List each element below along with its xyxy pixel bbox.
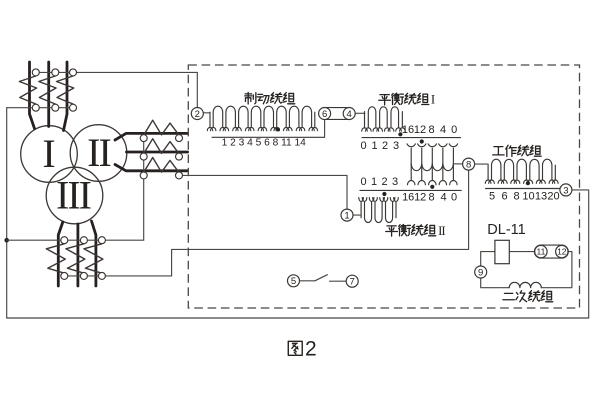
svg-text:6: 6	[322, 109, 327, 120]
coupling winding top cup taps	[407, 144, 458, 147]
power transformer T1 winding I circle	[21, 126, 78, 183]
svg-text:12: 12	[414, 191, 426, 203]
wire: CT-I bottom terminal bus	[7, 107, 73, 109]
wire: DL-11 coil left lead to node 9	[481, 252, 495, 266]
CT secondary winding 1LH-b (zigzag)	[39, 76, 56, 104]
svg-text:12: 12	[414, 124, 426, 136]
svg-text:0: 0	[451, 124, 457, 136]
svg-text:5: 5	[291, 276, 296, 287]
CT secondary winding 1LH-c (zigzag)	[57, 76, 74, 104]
dashed relay enclosure box	[188, 65, 579, 308]
svg-text:8: 8	[466, 160, 471, 171]
svg-text:DL-11: DL-11	[487, 222, 525, 238]
braking winding tap bus overline	[212, 136, 325, 138]
svg-text:12: 12	[557, 247, 567, 257]
middle tap turns numbers 16 12 8 4 0 (top row)	[402, 124, 457, 136]
svg-text:5: 5	[489, 191, 495, 203]
selected tap dot on balance winding I	[398, 132, 402, 136]
DL-11 relay coil rectangle	[495, 240, 509, 263]
wire: CT-III bottom terminal to node 8 branch	[64, 170, 468, 276]
svg-text:II: II	[438, 224, 445, 238]
svg-text:2: 2	[381, 176, 387, 188]
svg-text:10: 10	[522, 191, 534, 203]
CT-II right terminal a	[176, 135, 183, 142]
braking winding coil (zhidong raozu)	[207, 106, 317, 131]
power transformer T1 winding II circle	[70, 125, 127, 182]
CT-II right terminal b	[176, 153, 183, 160]
node 6 terminal	[319, 108, 331, 120]
wire: overline up to node 6	[324, 119, 326, 137]
svg-text:2: 2	[305, 337, 317, 360]
svg-text:16: 16	[402, 124, 414, 136]
wire: CT-II left terminal chain down to CT-III bus	[143, 138, 145, 240]
balance winding II coil (mirrored fork coil)	[359, 198, 399, 223]
svg-text:4: 4	[440, 124, 446, 136]
node 4 terminal	[343, 108, 355, 120]
node 3 terminal	[560, 184, 572, 196]
winding II phase conductor C (thick lead)	[115, 165, 188, 171]
wire: node 9 down to secondary winding	[481, 278, 510, 288]
node 1 terminal	[341, 209, 353, 221]
node 11 terminal	[535, 245, 547, 257]
CT-I top terminal b	[52, 69, 59, 76]
switch blade (open contact)	[315, 275, 328, 281]
winding III phase conductor B (thick lead)	[77, 224, 80, 286]
removable link between node 11 and node 12	[534, 245, 568, 258]
CT-II left terminal a	[140, 135, 147, 142]
wire: CT-I top terminal bus to node 2	[36, 72, 198, 106]
selected tap dot on braking winding	[276, 127, 280, 131]
top tap bus overline (balance winding I)	[362, 137, 461, 139]
wire: CT-II right terminal to node 1	[179, 175, 347, 209]
node 12 terminal	[556, 245, 568, 257]
winding III phase conductor C (thick lead)	[92, 221, 96, 286]
selected dot top of coupling winding	[420, 139, 424, 143]
winding II phase conductor B (thick lead)	[127, 151, 188, 154]
winding III phase conductor A (thick lead)	[58, 222, 63, 286]
winding I phase conductor C (thick lead)	[64, 62, 68, 131]
CT-I bottom terminal c	[70, 104, 77, 111]
CT secondary winding 2LH-a (zigzag)	[144, 120, 179, 135]
balance winding I tap numbers 0-3	[360, 140, 399, 152]
wire: bottom return bus	[7, 317, 589, 319]
svg-text:9: 9	[478, 267, 483, 278]
working winding coil (gongzuo raozu)	[485, 159, 558, 183]
label DL-11	[487, 222, 525, 238]
node 9 terminal	[475, 266, 487, 278]
svg-text:1: 1	[371, 140, 377, 152]
wire: secondary winding to node 12	[541, 252, 572, 288]
node 2 terminal	[191, 108, 203, 120]
CT-III bottom terminal b	[80, 272, 87, 279]
CT-III bottom terminal a	[61, 272, 68, 279]
wire: node 5 to switch hinge	[300, 280, 315, 282]
selected tap dot on balance winding II	[382, 192, 386, 196]
svg-text:20: 20	[547, 191, 559, 203]
working winding tap numbers	[489, 191, 560, 203]
svg-text:1: 1	[344, 211, 349, 222]
CT-III bottom terminal c	[98, 272, 105, 279]
svg-text:I: I	[431, 93, 435, 107]
winding II phase conductor A (thick lead)	[115, 133, 188, 140]
svg-text:1: 1	[371, 176, 377, 188]
CT-II right terminal c	[176, 172, 183, 179]
svg-text:2: 2	[195, 109, 200, 120]
wire: node 2 to braking coil	[203, 112, 210, 114]
label balance winding II (Chinese)	[386, 224, 446, 238]
CT secondary winding 2LH-b (zigzag)	[144, 139, 179, 154]
svg-text:8: 8	[428, 124, 434, 136]
label working winding (Chinese)	[493, 145, 541, 156]
svg-text:8: 8	[428, 191, 434, 203]
wire: switch to node 7	[330, 280, 347, 282]
winding I phase conductor A (thick lead)	[30, 62, 35, 129]
braking winding tap numbers	[222, 137, 307, 148]
CT-III top terminal c	[98, 237, 105, 244]
svg-text:4: 4	[347, 109, 352, 120]
CT-I bottom terminal b	[52, 104, 59, 111]
svg-text:13: 13	[535, 191, 547, 203]
caption figure 2 (Chinese)	[288, 337, 316, 360]
svg-text:6: 6	[501, 191, 507, 203]
svg-text:0: 0	[360, 140, 366, 152]
CT secondary winding 1LH-a (zigzag)	[19, 76, 36, 104]
CT-II left terminal c	[140, 172, 147, 179]
CT secondary winding 3LH-b (zigzag)	[66, 244, 85, 273]
svg-text:0: 0	[360, 176, 366, 188]
CT-I bottom terminal a	[32, 104, 39, 111]
CT-I top terminal c	[70, 69, 77, 76]
middle tap turns numbers 16 12 8 4 0 (bottom row)	[402, 191, 457, 203]
wire: node 1 to balance winding II	[353, 214, 361, 216]
secondary winding coil (erci raozu)	[509, 282, 541, 287]
svg-text:11: 11	[536, 247, 545, 257]
svg-text:7: 7	[350, 277, 355, 288]
svg-text:3: 3	[392, 176, 398, 188]
CT-I top terminal a	[32, 69, 39, 76]
wire: coupling winding to node 8	[453, 163, 462, 165]
svg-text:III: III	[56, 173, 91, 218]
selected tap dot on working winding	[526, 181, 530, 185]
CT secondary winding 3LH-a (zigzag)	[46, 244, 65, 273]
junction on left bus	[4, 238, 9, 243]
CT-III top terminal b	[80, 237, 87, 244]
svg-text:0: 0	[451, 191, 457, 203]
working winding tap bus overline	[486, 188, 561, 190]
svg-text:4: 4	[440, 191, 446, 203]
svg-text:16: 16	[402, 191, 414, 203]
CT secondary winding 3LH-c (zigzag)	[84, 244, 103, 273]
selected dot bottom of coupling winding	[430, 185, 434, 189]
wire: node 4 to balance winding I	[355, 112, 365, 114]
coupling winding body (vertical turns and loops)	[408, 148, 458, 185]
node 7 terminal	[346, 275, 358, 287]
label balance winding I (Chinese)	[379, 93, 435, 107]
bottom tap bus overline (balance winding II)	[360, 189, 461, 191]
svg-text:1 2 3 4 5 6 8 11 14: 1 2 3 4 5 6 8 11 14	[222, 137, 307, 148]
power transformer T1 winding III circle	[46, 167, 103, 224]
svg-text:II: II	[87, 130, 110, 175]
label braking winding (Chinese)	[245, 92, 295, 104]
CT-II left terminal b	[140, 153, 147, 160]
removable link between node 6 and node 4	[325, 108, 350, 120]
balance winding II tap numbers 0-3	[360, 176, 398, 188]
svg-text:8: 8	[513, 191, 519, 203]
svg-text:I: I	[42, 131, 55, 176]
label secondary winding (Chinese)	[503, 291, 553, 302]
wire: right vertical bus to node 3	[572, 190, 589, 318]
node 8 terminal	[463, 158, 475, 170]
svg-text:2: 2	[382, 140, 388, 152]
node 5 terminal	[288, 275, 300, 287]
wire: CT-III top terminal bus	[7, 239, 144, 241]
svg-text:3: 3	[393, 140, 399, 152]
CT secondary winding 2LH-c (zigzag)	[144, 158, 179, 173]
wire: DL-11 coil right lead to node 11	[509, 251, 534, 253]
svg-text:3: 3	[563, 185, 568, 196]
winding I phase conductor B (thick lead)	[47, 62, 50, 127]
wire: node 8 to working winding	[475, 163, 489, 165]
wire: left vertical bus	[6, 108, 8, 318]
balance winding I adjustable coil	[362, 107, 405, 131]
CT-III top terminal a	[61, 237, 68, 244]
